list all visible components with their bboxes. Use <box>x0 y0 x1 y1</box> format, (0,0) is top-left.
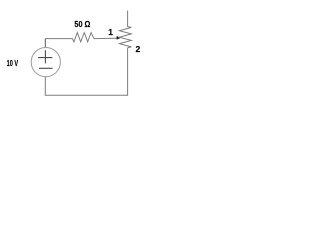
svg-text:1: 1 <box>108 27 113 37</box>
svg-text:10 V: 10 V <box>7 58 19 68</box>
svg-text:2: 2 <box>136 44 141 54</box>
svg-text:50 Ω: 50 Ω <box>74 19 90 29</box>
